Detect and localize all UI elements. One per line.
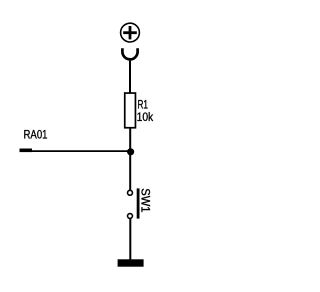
- svg-text:10k: 10k: [137, 110, 154, 124]
- svg-text:SW1: SW1: [139, 188, 153, 212]
- svg-text:RA01: RA01: [24, 128, 48, 142]
